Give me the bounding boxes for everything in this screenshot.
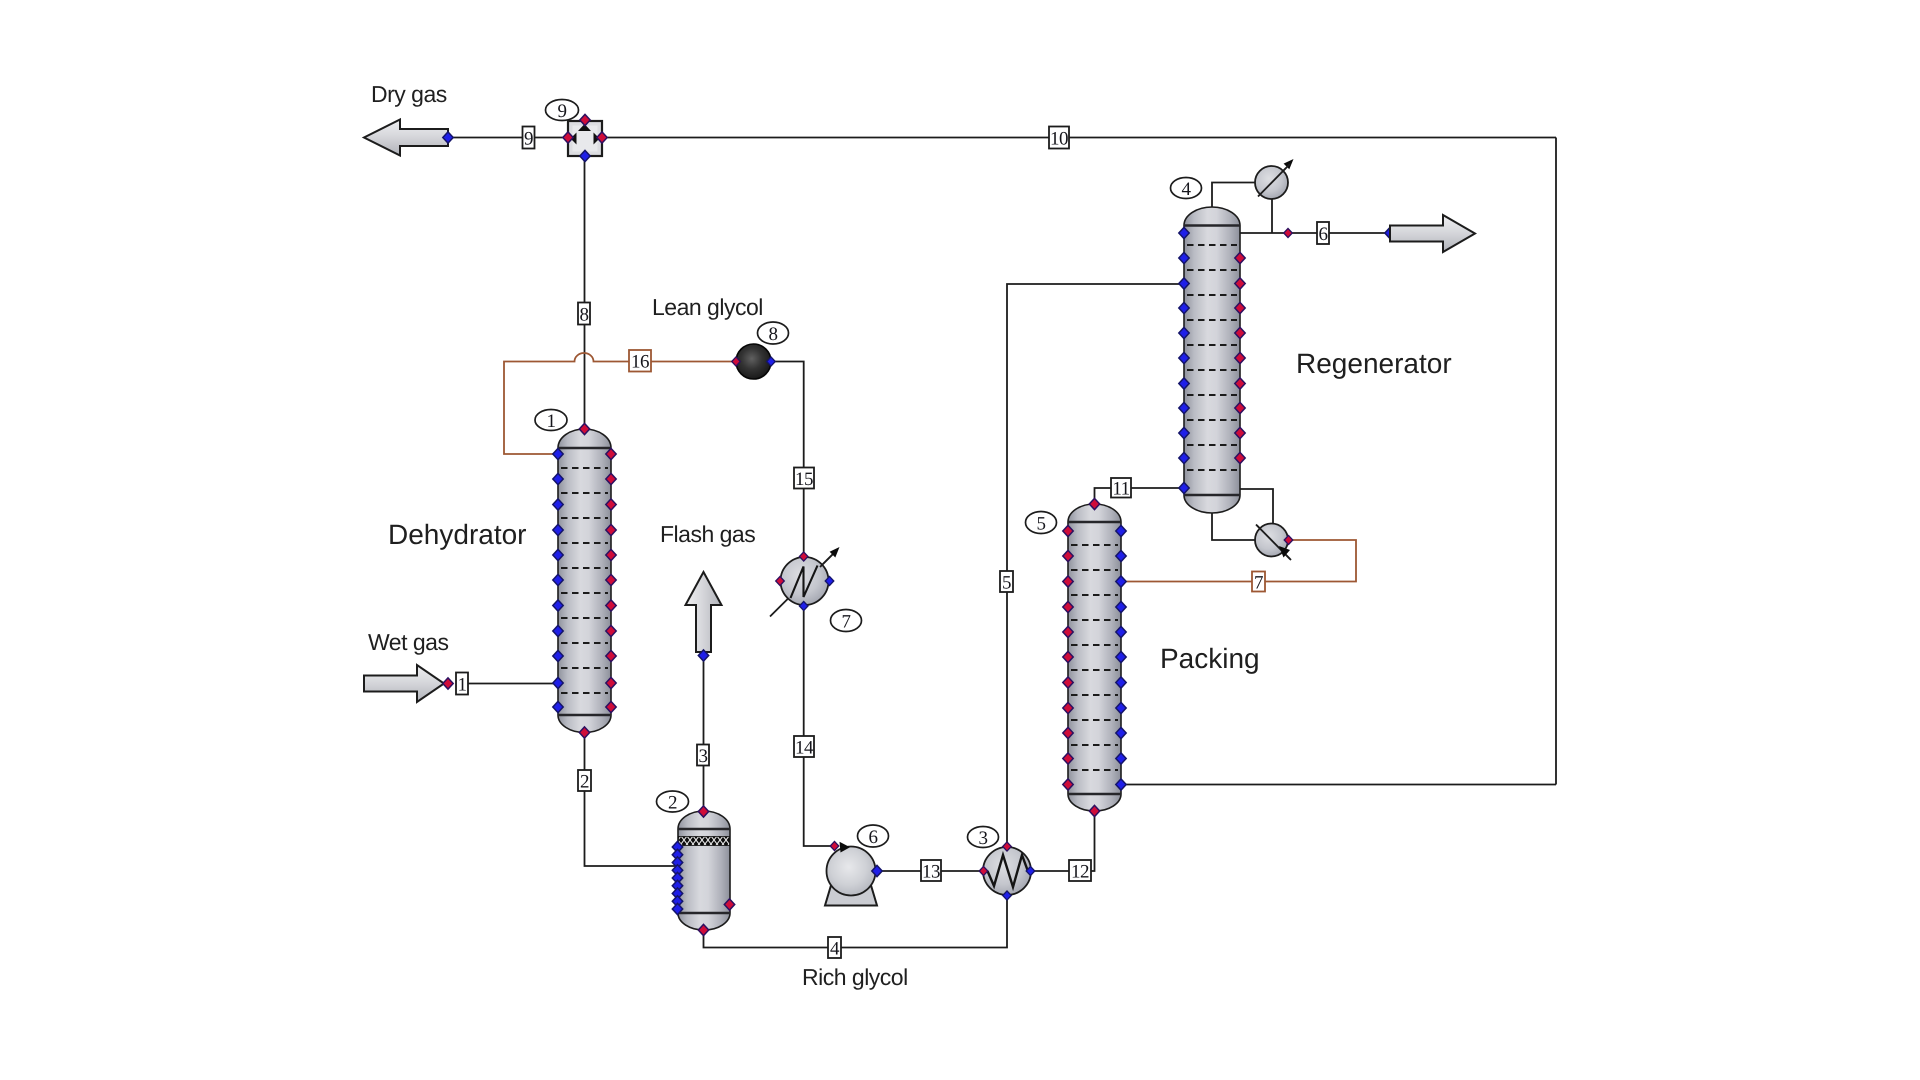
svg-text:8: 8 <box>769 324 778 345</box>
svg-text:2: 2 <box>668 793 677 814</box>
svg-text:Wet gas: Wet gas <box>368 629 448 655</box>
wire stream 11 (packing top to regenerator) <box>1095 488 1185 503</box>
flash drum left nozzles <box>672 841 682 914</box>
stream box 4 <box>828 937 841 960</box>
flash gas arrow <box>686 572 722 652</box>
dehydrator right nozzles <box>606 448 616 712</box>
stream box 16 (brown) <box>629 350 651 373</box>
stream box 9 <box>523 127 535 150</box>
oval label 6 <box>858 825 889 848</box>
flash drum bottom node <box>698 924 708 935</box>
stream box 12 <box>1069 860 1091 883</box>
wire stream 6 (regenerator overhead product) <box>1240 232 1390 234</box>
regenerator outlet arrow node <box>1385 227 1395 238</box>
svg-text:Rich glycol: Rich glycol <box>802 964 908 990</box>
svg-text:16: 16 <box>631 352 649 373</box>
condenser (regenerator overhead) <box>1255 159 1294 199</box>
stream box 14 <box>794 736 814 759</box>
regenerator outlet arrow <box>1390 215 1475 252</box>
stream box 13 <box>921 860 941 883</box>
wire stream 12 (exchanger to packing bottom) <box>1031 812 1095 871</box>
stream box 8 <box>578 303 590 326</box>
exchanger top node <box>1003 842 1012 851</box>
svg-text:1: 1 <box>458 675 467 696</box>
oval label 5 <box>1026 512 1057 535</box>
wire stream 8 (mixer to dehydrator top) <box>584 156 586 429</box>
wire stream 15 (valve outlet to cooler) <box>771 362 804 557</box>
pump P-100 <box>825 847 877 906</box>
dehydrator top node <box>579 423 589 434</box>
wire stream 3 (flash gas riser) <box>703 656 705 811</box>
mixer top node <box>580 114 590 125</box>
stream box 6 <box>1317 222 1329 245</box>
packing column T-101 <box>1068 504 1121 811</box>
dehydrator column T-100 <box>558 429 611 733</box>
packing left nozzles <box>1063 525 1073 790</box>
wire stream 10 bottom return to packing <box>1122 784 1556 786</box>
pump inlet node <box>830 841 839 850</box>
valve VLV-100 (lean glycol) <box>736 344 771 379</box>
mixer bottom node <box>580 150 590 161</box>
svg-text:2: 2 <box>580 772 589 793</box>
svg-text:1: 1 <box>547 411 556 432</box>
svg-text:6: 6 <box>869 827 878 848</box>
wet gas arrow <box>364 665 444 702</box>
wire regenerator side draw to reboiler top <box>1240 489 1273 524</box>
regenerator column T-102 <box>1184 207 1240 513</box>
pump inlet arrow <box>840 842 851 853</box>
svg-text:7: 7 <box>1254 573 1263 594</box>
wire stream 10 horizontal <box>602 137 1556 139</box>
svg-text:9: 9 <box>524 129 533 150</box>
packing bottom node <box>1089 805 1099 816</box>
wire stream 16 (lean glycol to dehydrator, brown, with hop) <box>504 353 736 454</box>
svg-text:11: 11 <box>1112 479 1129 500</box>
svg-text:Packing: Packing <box>1160 643 1260 674</box>
oval label 1 <box>535 410 567 433</box>
regenerator right nozzles <box>1235 252 1245 463</box>
dehydrator bottom node <box>579 727 589 738</box>
flash drum top node <box>698 806 708 817</box>
wire stream 9 (dry gas line) <box>448 137 568 139</box>
mixer left node <box>563 132 573 143</box>
svg-text:3: 3 <box>979 828 988 849</box>
wet gas tip node <box>443 678 453 689</box>
wire stream 2 (dehydrator bottoms to flash drum) <box>585 733 678 866</box>
svg-text:5: 5 <box>1037 514 1046 535</box>
cooler right node <box>825 576 834 585</box>
stream 6 product node <box>1284 228 1293 237</box>
svg-text:Dry gas: Dry gas <box>371 81 447 107</box>
regenerator left nozzles <box>1179 227 1189 493</box>
valve left node <box>732 357 741 366</box>
mixer MIX-100 <box>568 121 602 156</box>
heat exchanger E-100 (exchanger 3) <box>983 847 1031 895</box>
wire stream 4 (rich glycol) <box>704 896 1008 948</box>
svg-text:4: 4 <box>1182 179 1192 200</box>
stream box 7 (brown) <box>1252 572 1265 594</box>
svg-text:8: 8 <box>580 305 589 326</box>
exchanger right node <box>1026 866 1035 875</box>
stream box 5 <box>1000 571 1013 594</box>
cooler top node <box>799 552 808 561</box>
svg-text:12: 12 <box>1071 862 1089 883</box>
exchanger bottom node <box>1003 891 1012 900</box>
svg-text:7: 7 <box>842 612 851 633</box>
dry gas arrow tail node <box>443 132 453 143</box>
wire stream 5 (exchanger top to regenerator feed) <box>1007 284 1184 846</box>
svg-text:Dehydrator: Dehydrator <box>388 519 527 550</box>
svg-text:15: 15 <box>795 469 813 490</box>
flash drum V-100 <box>678 811 730 930</box>
svg-text:5: 5 <box>1002 573 1011 594</box>
packing top node <box>1089 498 1099 509</box>
valve right node <box>767 357 776 366</box>
wire condenser drop leg <box>1271 199 1273 233</box>
cooler bottom node <box>799 601 808 610</box>
exchanger left node <box>979 866 988 875</box>
oval label 4 <box>1171 178 1202 201</box>
pump outlet node <box>872 865 882 876</box>
svg-text:9: 9 <box>558 101 567 122</box>
svg-text:4: 4 <box>830 939 840 960</box>
wire stream 7 (hot lean glycol, brown) <box>1122 540 1356 582</box>
wire stream 1 (wet gas feed) <box>468 683 558 685</box>
oval label 3 <box>968 827 999 850</box>
cooler left node <box>776 576 785 585</box>
wire stream 10 right loop vertical <box>1555 138 1557 785</box>
stream box 3 <box>697 745 709 768</box>
svg-text:3: 3 <box>699 746 708 767</box>
svg-text:10: 10 <box>1050 129 1068 150</box>
svg-text:Flash gas: Flash gas <box>660 521 755 547</box>
mixer right node <box>597 132 607 143</box>
stream box 11 <box>1111 478 1131 500</box>
oval label 9 <box>546 100 579 123</box>
packing right nozzles <box>1116 525 1126 790</box>
wire stream 13 (pump outlet to exchanger) <box>877 870 983 872</box>
svg-text:13: 13 <box>922 862 940 883</box>
wire regenerator overhead to condenser <box>1212 183 1255 209</box>
reboiler outlet node <box>1284 535 1293 544</box>
wire stream 14 (cooler to pump inlet) <box>804 606 833 846</box>
stream box 2 <box>578 770 591 793</box>
oval label 8 <box>758 322 789 345</box>
svg-text:Regenerator: Regenerator <box>1296 348 1452 379</box>
reboiler (regenerator bottom heater) <box>1255 524 1291 561</box>
flash drum right nozzle <box>724 899 734 910</box>
cooler E-101 (exchanger 7) <box>770 547 840 617</box>
flash gas arrow base node <box>698 650 708 661</box>
dehydrator left nozzles <box>553 448 563 712</box>
dry gas arrow <box>364 120 448 156</box>
svg-text:Lean glycol: Lean glycol <box>652 294 763 320</box>
stream box 10 <box>1049 127 1069 150</box>
stream box 1 <box>456 673 468 696</box>
wire regenerator bottoms to reboiler <box>1212 513 1255 540</box>
stream box 15 <box>794 468 814 491</box>
oval label 2 <box>657 791 689 814</box>
oval label 7 <box>831 610 862 633</box>
svg-text:6: 6 <box>1319 224 1328 245</box>
svg-text:14: 14 <box>795 738 814 759</box>
